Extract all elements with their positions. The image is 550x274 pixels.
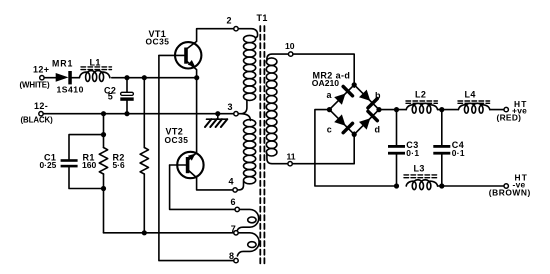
- wire winding to pin 11: [267, 153, 288, 164]
- wire R1 bottom lead: [103, 174, 105, 233]
- wire pin 10 to bridge: [293, 54, 354, 87]
- wire pin 11 to bridge: [293, 132, 355, 164]
- node emitters junction: [194, 75, 199, 80]
- svg-text:7: 7: [231, 224, 236, 234]
- svg-text:5·6: 5·6: [113, 160, 125, 170]
- svg-text:OA210: OA210: [312, 78, 339, 88]
- svg-text:12+: 12+: [33, 65, 49, 75]
- svg-text:OC35: OC35: [165, 135, 189, 145]
- wire winding to pin 3 fork: [238, 101, 250, 121]
- core of L4: [458, 100, 490, 102]
- winding T1 feedback upper (6-7): [237, 209, 259, 230]
- node C4 top junction: [439, 107, 444, 112]
- inductor L2: [406, 103, 437, 109]
- wire VT2 base to pin 6: [170, 165, 235, 209]
- capacitor C1: [69, 135, 104, 160]
- wire 12+ terminal to MR1: [44, 77, 56, 79]
- capacitor C4: [441, 110, 443, 145]
- wire pin 2 into winding: [238, 29, 257, 38]
- transistor VT2: [177, 152, 203, 178]
- wire VT1 emitter: [187, 62, 197, 78]
- wire L2 to L4: [438, 109, 459, 111]
- winding T1 secondary (10-11): [266, 58, 277, 66]
- wire bridge right to L2: [379, 109, 406, 111]
- node C3 top junction: [394, 107, 399, 112]
- resistor R1: [99, 148, 107, 175]
- diode MR2b: [359, 90, 370, 101]
- svg-text:160: 160: [82, 160, 97, 170]
- svg-text:L3: L3: [414, 164, 425, 174]
- wire pin 10 into winding: [267, 54, 288, 61]
- node bridge bottom: [352, 132, 357, 137]
- node pin 6: [235, 207, 239, 211]
- wire L4 to HT+ve terminal: [490, 109, 504, 111]
- svg-text:(BROWN): (BROWN): [489, 187, 531, 197]
- node 12+ input terminal (WHITE): [40, 76, 44, 80]
- svg-text:12-: 12-: [34, 101, 48, 111]
- svg-text:2: 2: [227, 16, 232, 26]
- node pin 8: [234, 258, 238, 262]
- svg-text:c: c: [327, 125, 332, 135]
- core of L2: [406, 100, 437, 102]
- emitter arrow VT1: [188, 60, 196, 67]
- wire bias to pin 7: [104, 232, 234, 234]
- svg-text:5: 5: [108, 92, 113, 102]
- node HT-ve terminal: [504, 184, 508, 188]
- node C3 bottom junction: [394, 183, 399, 188]
- node C2 top junction: [124, 75, 129, 80]
- capacitor C3: [396, 110, 398, 145]
- svg-text:(RED): (RED): [497, 112, 522, 122]
- inductor L1: [79, 71, 110, 78]
- node C1 bottom junction: [101, 186, 106, 191]
- node bridge right: [376, 107, 381, 112]
- svg-text:a: a: [327, 90, 333, 100]
- wire +12V top rail: [112, 77, 197, 79]
- inductor L3: [406, 180, 437, 186]
- svg-text:d: d: [375, 125, 381, 135]
- node pin 7: [234, 231, 238, 235]
- svg-text:(WHITE): (WHITE): [20, 81, 50, 90]
- svg-text:MR1: MR1: [52, 59, 73, 69]
- svg-text:L4: L4: [465, 89, 476, 99]
- node C2 bottom junction: [124, 111, 129, 116]
- svg-text:b: b: [375, 90, 381, 100]
- wire R1 top lead: [103, 114, 105, 148]
- node R2 top junction: [142, 75, 147, 80]
- node C1 top junction: [101, 132, 106, 137]
- node 12- input terminal (BLACK): [39, 112, 43, 116]
- wire MR1 to L1: [72, 77, 80, 79]
- svg-text:8: 8: [229, 251, 234, 261]
- wire winding to pin 4: [238, 182, 244, 190]
- svg-text:0·1: 0·1: [452, 148, 465, 158]
- core of L3: [404, 174, 437, 176]
- node pin 3: [234, 112, 238, 116]
- wire 12- rail: [43, 113, 233, 115]
- node bridge left: [327, 107, 332, 112]
- svg-text:T1: T1: [257, 13, 268, 23]
- transistor VT1: [175, 42, 201, 68]
- node C4 bottom junction: [439, 183, 444, 188]
- wire VT1 base to pin 8: [159, 56, 234, 261]
- svg-text:1S410: 1S410: [57, 84, 84, 94]
- capacitor C2: [126, 78, 128, 93]
- node pin 10: [289, 52, 293, 56]
- wire VT2 base: [170, 164, 186, 166]
- wire L3 to HT-ve terminal: [438, 185, 504, 187]
- resistor R2: [140, 148, 148, 175]
- node bridge top: [352, 82, 357, 87]
- core of T1: [259, 26, 261, 266]
- bridge MR2 frame: [329, 85, 379, 135]
- emitter arrow VT2: [188, 154, 196, 161]
- diode MR2c: [334, 114, 345, 125]
- node ground junction: [215, 111, 220, 116]
- svg-text:0·25: 0·25: [40, 160, 57, 170]
- wire R2 top lead: [143, 78, 145, 148]
- winding T1 feedback lower (7-8): [237, 233, 259, 256]
- node pin 11: [288, 162, 292, 166]
- diode MR1: [56, 73, 69, 82]
- wire VT2 collector: [189, 171, 233, 190]
- svg-text:0·1: 0·1: [406, 148, 419, 158]
- winding T1 primary lower (3-4): [244, 120, 256, 127]
- svg-text:4: 4: [229, 177, 234, 187]
- svg-text:11: 11: [287, 152, 296, 162]
- wire bridge left to HT-ve line: [315, 110, 397, 186]
- node pin 2: [234, 27, 238, 31]
- winding T1 primary upper (2-3): [244, 35, 256, 42]
- wire VT1 base: [159, 54, 184, 56]
- wire VT2 emitter: [189, 78, 197, 160]
- wire VT1 collector: [187, 29, 234, 49]
- svg-text:10: 10: [285, 41, 295, 51]
- wire R2 bottom lead: [143, 174, 145, 233]
- svg-text:(BLACK): (BLACK): [21, 115, 54, 124]
- node R1 top junction: [101, 111, 106, 116]
- ground: [217, 114, 219, 120]
- svg-text:OC35: OC35: [146, 37, 170, 47]
- core of L1: [81, 66, 112, 68]
- diode MR2a: [334, 94, 345, 105]
- svg-text:L1: L1: [90, 58, 101, 68]
- node HT+ve terminal: [504, 107, 508, 111]
- inductor L4: [458, 103, 489, 109]
- node pin 4: [233, 188, 237, 192]
- diode MR2d: [359, 118, 370, 129]
- svg-text:L2: L2: [415, 89, 426, 99]
- svg-text:3: 3: [228, 102, 233, 112]
- svg-text:6: 6: [231, 197, 236, 207]
- node bias junction: [142, 230, 147, 235]
